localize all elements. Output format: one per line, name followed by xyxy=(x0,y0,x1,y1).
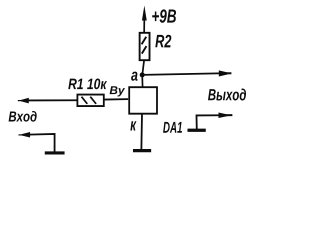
wire R1 to DA1 left pin xyxy=(104,98,128,101)
node a junction dot xyxy=(140,72,145,77)
op-amp DA1 box xyxy=(129,87,157,114)
label Output (Vykhod) xyxy=(208,89,246,101)
pin label k xyxy=(130,121,136,130)
label R2 xyxy=(155,35,171,48)
ground bar under DA1 xyxy=(133,149,151,152)
wire node a to DA1 top pin xyxy=(141,75,143,88)
label DA1 xyxy=(163,122,182,133)
node label a xyxy=(131,72,138,81)
wire R2 to node a xyxy=(142,60,144,75)
output common terminal xyxy=(187,113,232,131)
wire DA1 bottom pin to ground xyxy=(140,115,143,150)
net label +9V xyxy=(152,9,176,23)
input common terminal xyxy=(18,132,64,153)
pin label Vu xyxy=(110,86,125,96)
output wire xyxy=(142,70,231,76)
label R1 10k xyxy=(68,78,107,89)
resistor R2 xyxy=(140,33,150,60)
supply arrow +9V xyxy=(142,6,147,34)
input arrow xyxy=(18,98,78,104)
resistor R1 xyxy=(77,95,103,107)
label Input (Vkhod) xyxy=(9,111,37,122)
